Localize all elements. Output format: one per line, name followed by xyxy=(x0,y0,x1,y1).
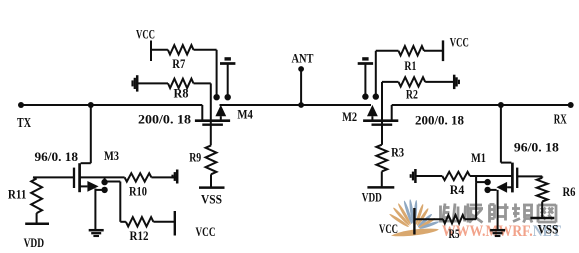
svg-text:96/0. 18: 96/0. 18 xyxy=(514,140,560,155)
ground under M3 xyxy=(89,229,104,232)
svg-text:VCC: VCC xyxy=(379,222,398,236)
wire main line to M3 drain xyxy=(90,105,92,163)
ground for R4 xyxy=(414,169,417,183)
transistor M2 xyxy=(391,105,393,120)
wire M2 to RX xyxy=(392,104,571,106)
terminal bar for R5 VCC xyxy=(413,208,415,235)
svg-text:R11: R11 xyxy=(8,188,27,202)
wire M4 to M2 via ANT xyxy=(220,104,372,106)
power VCC for R7 xyxy=(150,41,152,62)
power VSS under R9 xyxy=(199,186,225,189)
svg-text:200/0. 18: 200/0. 18 xyxy=(138,112,192,127)
node M3 bias dot xyxy=(101,179,107,185)
resistor R10 xyxy=(80,176,125,178)
svg-text:R5: R5 xyxy=(449,227,460,241)
resistor R2 xyxy=(382,81,399,83)
transistor M3 xyxy=(78,163,81,192)
svg-text:RX: RX xyxy=(554,112,567,127)
node TX xyxy=(18,102,24,108)
svg-text:200/0. 18: 200/0. 18 xyxy=(415,113,464,128)
wire stub to M2 source node xyxy=(364,64,366,96)
resistor R9 xyxy=(206,145,217,174)
AC ground stub top-left xyxy=(220,62,235,65)
node M1 source dot xyxy=(484,187,490,193)
svg-text:R6: R6 xyxy=(563,185,576,199)
svg-text:R7: R7 xyxy=(172,57,185,71)
svg-text:VSS: VSS xyxy=(538,223,559,237)
node RX xyxy=(568,102,574,108)
svg-text:VCC: VCC xyxy=(196,225,216,239)
svg-text:VCC: VCC xyxy=(136,28,155,42)
svg-text:M1: M1 xyxy=(471,151,486,165)
svg-text:TX: TX xyxy=(17,115,31,130)
transistor M1 xyxy=(511,163,514,193)
wire M3 gate xyxy=(33,176,74,178)
resistor R6 xyxy=(541,176,543,177)
power VDD under R11 xyxy=(25,222,49,225)
wire M3 source to ground xyxy=(94,189,96,230)
power VDD under R3 xyxy=(367,186,394,189)
wire R7 to M4 drain node xyxy=(216,50,218,97)
wire R1 to M2 drain node xyxy=(375,51,377,96)
ground for R10 xyxy=(176,170,179,184)
svg-text:VDD: VDD xyxy=(362,191,382,205)
wire TX to M4 xyxy=(21,104,202,106)
node ANT xyxy=(300,69,302,105)
wire R4 junction to bias dot xyxy=(475,176,477,182)
AC ground stub top-right xyxy=(358,62,373,65)
power VSS under R6 xyxy=(530,217,554,220)
svg-text:M2: M2 xyxy=(342,110,357,124)
terminal bar for R12 VCC xyxy=(174,211,176,236)
resistor R5 xyxy=(443,215,465,223)
wire M1 gate to R6 xyxy=(517,175,542,177)
resistor R4 xyxy=(415,175,442,177)
svg-text:96/0. 18: 96/0. 18 xyxy=(35,149,79,164)
watermark logo xyxy=(389,199,440,236)
resistor R3 xyxy=(381,126,383,145)
node M1 bias dot xyxy=(484,179,490,185)
resistor R12 xyxy=(126,217,153,226)
node M3 source dot xyxy=(101,187,107,193)
transistor M4 gate wire xyxy=(210,83,212,145)
wire bias node to R5 xyxy=(475,182,477,219)
wire stub to M4 source node xyxy=(227,64,229,97)
ground for R2 xyxy=(453,75,456,89)
junction dot to M3 drain xyxy=(88,102,94,108)
resistor R11 xyxy=(33,177,37,178)
svg-text:M4: M4 xyxy=(237,108,253,122)
svg-text:M3: M3 xyxy=(104,149,119,163)
svg-text:R4: R4 xyxy=(450,183,465,197)
transistor M2 gate wire xyxy=(381,82,383,145)
svg-text:VDD: VDD xyxy=(24,236,44,250)
svg-text:VSS: VSS xyxy=(201,193,222,207)
wire M1 source to ground xyxy=(497,190,499,230)
transistor M4 xyxy=(201,105,203,120)
resistor R1 xyxy=(376,50,399,52)
svg-text:R2: R2 xyxy=(406,88,418,102)
svg-text:R8: R8 xyxy=(174,87,189,101)
svg-text:R12: R12 xyxy=(130,229,149,243)
wire bias dot to R12 xyxy=(105,181,121,183)
svg-text:R3: R3 xyxy=(391,146,404,160)
ground under M1 xyxy=(490,229,505,232)
resistor R7 xyxy=(151,49,168,51)
svg-text:R10: R10 xyxy=(129,185,147,199)
wire main line to M1 drain xyxy=(500,105,502,163)
resistor R8 xyxy=(137,82,168,84)
svg-text:R1: R1 xyxy=(404,59,416,73)
ground for R8 xyxy=(136,75,139,91)
svg-text:VCC: VCC xyxy=(450,36,469,50)
power VCC for R1 xyxy=(442,40,444,61)
watermark chinese characters xyxy=(441,204,557,223)
svg-text:R9: R9 xyxy=(189,151,201,165)
junction dot to M1 drain xyxy=(498,102,504,108)
svg-text:ANT: ANT xyxy=(292,52,315,66)
